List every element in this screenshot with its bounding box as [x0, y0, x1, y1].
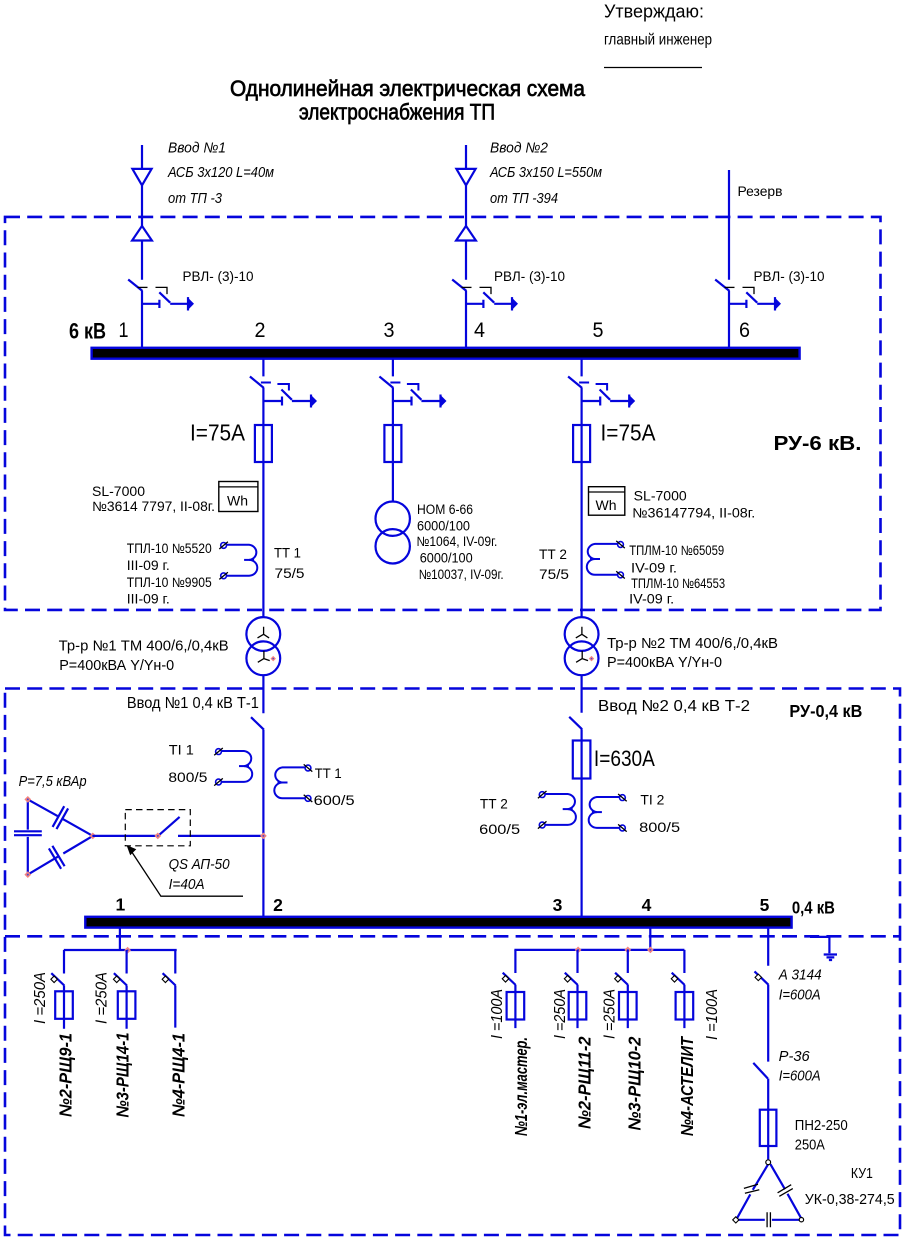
- svg-text:№1064, IV-09г.: №1064, IV-09г.: [416, 534, 497, 549]
- disconnector col5: [568, 377, 635, 408]
- svg-text:4: 4: [642, 895, 652, 915]
- cap plates right side: [778, 1185, 793, 1197]
- svg-text:АСБ 3х150 L=550м: АСБ 3х150 L=550м: [489, 165, 602, 181]
- svg-text:800/5: 800/5: [168, 770, 207, 785]
- switch blade Ввод 0,4 T-1: [251, 717, 264, 730]
- QS dashed enclosure: [125, 810, 190, 846]
- breaker blade r1: [502, 973, 515, 985]
- svg-text:ТПЛ-10 №5520: ТПЛ-10 №5520: [127, 541, 212, 556]
- svg-text:I=630А: I=630А: [594, 746, 655, 771]
- drop from bus: [649, 928, 651, 950]
- disconnector QS reserve: [715, 280, 781, 311]
- svg-text:6000/100: 6000/100: [420, 551, 473, 566]
- capacitor plates top side: [53, 806, 69, 829]
- svg-text:Р=400кВА Y/Yн-0: Р=400кВА Y/Yн-0: [607, 655, 722, 671]
- svg-text:№36147794, II-08г.: №36147794, II-08г.: [632, 506, 755, 521]
- svg-text:IV-09 г.: IV-09 г.: [631, 561, 677, 576]
- wire: [262, 359, 264, 917]
- svg-text:№1-эл.мастер.: №1-эл.мастер.: [511, 1037, 531, 1136]
- voltage transformer HOM 6-66: [376, 502, 410, 536]
- capacitor plates bottom side: [49, 846, 65, 869]
- fuse I=630A on line 2: [573, 741, 591, 779]
- svg-text:SL-7000: SL-7000: [92, 484, 145, 499]
- svg-text:главный инженер: главный инженер: [604, 32, 712, 49]
- breaker blade r2: [564, 973, 577, 985]
- breaker blade r4: [671, 973, 684, 985]
- fuse r4: [676, 992, 694, 1020]
- CT TT1 6kV: [219, 542, 257, 580]
- svg-text:I=600А: I=600А: [779, 1069, 821, 1085]
- svg-text:Тр-р №1 ТМ 400/6,/0,4кВ: Тр-р №1 ТМ 400/6,/0,4кВ: [59, 639, 229, 655]
- breaker A 3144 diamond: [755, 974, 762, 981]
- svg-text:Резерв: Резерв: [738, 183, 783, 199]
- svg-text:250А: 250А: [795, 1138, 825, 1154]
- svg-text:I =250А: I =250А: [552, 989, 569, 1039]
- capacitor plates left side: [14, 831, 42, 835]
- wire: [141, 145, 143, 348]
- junctions: [575, 947, 582, 954]
- leader arrow to QS box: [131, 850, 244, 896]
- fuse r1: [507, 992, 525, 1020]
- svg-text:I =100А: I =100А: [704, 989, 721, 1040]
- svg-text:Wh: Wh: [596, 498, 617, 513]
- svg-text:№3-РЩ10-2: №3-РЩ10-2: [625, 1036, 645, 1130]
- wire: [580, 359, 582, 917]
- svg-text:Ввод №1: Ввод №1: [168, 141, 226, 157]
- svg-text:3: 3: [384, 319, 395, 342]
- svg-text:I=75А: I=75А: [190, 420, 246, 446]
- breaker blade f1: [51, 973, 64, 985]
- CT TT2 6kV (mirrored): [587, 541, 625, 579]
- svg-text:III-09 г.: III-09 г.: [127, 558, 170, 573]
- feeder r3 wire: [627, 950, 629, 1028]
- svg-text:№2-РЩ9-1: №2-РЩ9-1: [55, 1033, 75, 1117]
- svg-text:6000/100: 6000/100: [417, 519, 470, 534]
- fuse F col3: [384, 425, 401, 462]
- svg-text:I =250А: I =250А: [93, 972, 110, 1024]
- junction dots delta vertices: [24, 796, 31, 803]
- svg-text:Ввод №1 0,4 кВ Т-1: Ввод №1 0,4 кВ Т-1: [127, 695, 259, 712]
- svg-text:ТПЛМ-10 №64553: ТПЛМ-10 №64553: [631, 576, 725, 591]
- svg-text:I =100А: I =100А: [489, 989, 506, 1039]
- svg-text:I=75А: I=75А: [601, 420, 657, 446]
- svg-text:600/5: 600/5: [314, 793, 355, 808]
- svg-text:НОМ 6-66: НОМ 6-66: [417, 502, 473, 517]
- disconnector col3: [379, 377, 446, 408]
- disconnector QS incoming 2: [452, 280, 518, 311]
- svg-text:ТI 1: ТI 1: [169, 743, 194, 758]
- svg-text:РУ-6 кВ.: РУ-6 кВ.: [774, 433, 862, 455]
- svg-text:ТТ 2: ТТ 2: [539, 547, 567, 562]
- svg-text:ТТ 2: ТТ 2: [480, 797, 508, 812]
- svg-text:1: 1: [119, 319, 129, 342]
- svg-text:QS АП-50: QS АП-50: [169, 857, 230, 873]
- svg-text:6 кВ: 6 кВ: [69, 319, 106, 344]
- svg-text:РВЛ- (3)-10: РВЛ- (3)-10: [754, 268, 825, 284]
- svg-text:Р-36: Р-36: [779, 1049, 811, 1065]
- svg-text:1: 1: [116, 895, 126, 915]
- svg-text:6: 6: [739, 319, 750, 342]
- svg-text:800/5: 800/5: [639, 820, 680, 835]
- svg-text:I =250А: I =250А: [32, 972, 49, 1024]
- svg-text:ТПЛ-10 №9905: ТПЛ-10 №9905: [127, 575, 212, 590]
- feeder 1: wire: [63, 950, 65, 1029]
- disconnector col2: [250, 377, 317, 408]
- svg-text:I =250А: I =250А: [602, 989, 619, 1039]
- svg-text:IV-09 г.: IV-09 г.: [629, 592, 674, 607]
- svg-text:ТТ 1: ТТ 1: [315, 766, 342, 781]
- svg-text:от ТП -394: от ТП -394: [490, 191, 558, 207]
- svg-text:А 3144: А 3144: [778, 968, 822, 984]
- cable termination up: [132, 226, 152, 241]
- distribution bar: [64, 949, 177, 951]
- svg-text:от ТП -3: от ТП -3: [168, 191, 222, 207]
- feeder r1 wire: [514, 950, 516, 1028]
- svg-text:№3614 7797, II-08г.: №3614 7797, II-08г.: [92, 499, 215, 514]
- breaker blade r3: [615, 973, 628, 985]
- svg-text:№2-РЩ11-2: №2-РЩ11-2: [575, 1036, 595, 1129]
- svg-text:АСБ 3х120 L=40м: АСБ 3х120 L=40м: [167, 165, 274, 181]
- svg-text:3: 3: [553, 895, 563, 915]
- CT TI 1 (left of line 1): [214, 748, 252, 786]
- svg-text:Ввод №2: Ввод №2: [490, 141, 548, 157]
- svg-text:75/5: 75/5: [275, 566, 305, 581]
- breaker blade f3: [162, 973, 175, 985]
- switch blade Ввод 0,4 T-2: [569, 717, 582, 730]
- wire: [465, 145, 467, 348]
- svg-text:РВЛ- (3)-10: РВЛ- (3)-10: [494, 268, 565, 284]
- dashed panel separator line below 0,4 bus: [5, 935, 899, 938]
- svg-text:75/5: 75/5: [539, 567, 569, 582]
- svg-text:4: 4: [474, 319, 485, 342]
- breaker blade f2: [113, 973, 126, 985]
- svg-text:600/5: 600/5: [479, 822, 520, 837]
- junction dot in T1: [270, 656, 275, 661]
- svg-text:5: 5: [760, 895, 770, 915]
- wire: [767, 928, 769, 1160]
- wire: [392, 359, 394, 502]
- svg-text:№10037, IV-09г.: №10037, IV-09г.: [419, 567, 504, 582]
- svg-text:ПН2-250: ПН2-250: [795, 1118, 848, 1134]
- fuse PN2-250: [760, 1110, 777, 1146]
- svg-text:РВЛ- (3)-10: РВЛ- (3)-10: [183, 268, 254, 284]
- QS AP-50 switch blade: [158, 817, 180, 836]
- svg-text:№4-АСТЕЛИТ: №4-АСТЕЛИТ: [677, 1036, 697, 1136]
- svg-text:III-09 г.: III-09 г.: [127, 592, 170, 607]
- svg-text:УК-0,38-274,5: УК-0,38-274,5: [805, 1192, 895, 1208]
- svg-text:ТI 2: ТI 2: [640, 793, 664, 808]
- svg-text:0,4 кВ: 0,4 кВ: [792, 898, 835, 918]
- svg-text:РУ-0,4 кВ: РУ-0,4 кВ: [789, 701, 862, 721]
- ground symbol: [824, 955, 837, 961]
- svg-text:Wh: Wh: [227, 494, 248, 509]
- drop from bus: [119, 928, 121, 950]
- svg-text:ТПЛМ-10 №65059: ТПЛМ-10 №65059: [629, 543, 724, 558]
- svg-text:2: 2: [273, 895, 283, 915]
- breaker A 3144 blade: [755, 971, 769, 984]
- svg-text:SL-7000: SL-7000: [634, 489, 687, 504]
- feeder 3: wire: [174, 950, 176, 1028]
- meter Wh 2: [589, 487, 625, 516]
- svg-text:Утверждаю:: Утверждаю:: [604, 2, 704, 22]
- meter Wh 1: [219, 482, 258, 512]
- KU1 capacitor delta: [737, 1164, 769, 1219]
- signature line: [604, 67, 702, 69]
- CT TI 2 (right of line 2, mirrored): [589, 794, 627, 832]
- wire: [728, 170, 730, 348]
- cap plates bottom: [767, 1212, 770, 1227]
- wire from delta to line 1: [93, 835, 264, 837]
- fuse r2: [569, 992, 587, 1020]
- fuse r3: [619, 992, 637, 1020]
- vertex marks: [766, 1160, 771, 1165]
- feeder r2 wire: [576, 950, 578, 1028]
- svg-text:Однолинейная электрическая схе: Однолинейная электрическая схема: [230, 76, 586, 101]
- svg-text:электроснабжения ТП: электроснабжения ТП: [299, 100, 495, 125]
- fuse F col2: [255, 425, 272, 462]
- svg-text:Тр-р №2 ТМ 400/6,/0,4кВ: Тр-р №2 ТМ 400/6,/0,4кВ: [607, 636, 778, 652]
- disconnector QS incoming 1: [128, 280, 194, 311]
- svg-text:2: 2: [255, 319, 266, 342]
- distribution bar: [514, 949, 684, 951]
- svg-text:КУ1: КУ1: [851, 1166, 873, 1182]
- junction: [124, 947, 131, 954]
- fuse f2: [118, 991, 136, 1019]
- svg-text:I=600А: I=600А: [779, 988, 821, 1004]
- svg-text:I=40А: I=40А: [169, 877, 205, 893]
- fuse F col5: [573, 425, 590, 462]
- cap plates left side: [744, 1184, 759, 1193]
- CT TT 1 (right of line 1, mirrored, blue labels): [274, 764, 312, 802]
- svg-text:№3-РЩ14-1: №3-РЩ14-1: [112, 1033, 132, 1118]
- junction dot in T2: [589, 656, 594, 661]
- fuse f1: [55, 991, 73, 1019]
- cable termination down: [132, 169, 151, 185]
- svg-text:Ввод №2 0,4 кВ Т-2: Ввод №2 0,4 кВ Т-2: [598, 698, 750, 715]
- svg-text:5: 5: [593, 319, 604, 342]
- svg-text:Р=400кВА Y/Yн-0: Р=400кВА Y/Yн-0: [59, 658, 174, 674]
- delta sides: [27, 799, 29, 874]
- switch P-36 blade: [753, 1063, 768, 1079]
- svg-text:Р=7,5 кВАр: Р=7,5 кВАр: [19, 774, 87, 790]
- svg-text:№4-РЩ4-1: №4-РЩ4-1: [168, 1033, 188, 1117]
- svg-text:ТТ 1: ТТ 1: [274, 546, 301, 561]
- feeder r4 wire: [683, 950, 685, 1028]
- feeder 2: wire: [125, 950, 127, 1029]
- CT TT 2 (left of line 2): [538, 791, 576, 829]
